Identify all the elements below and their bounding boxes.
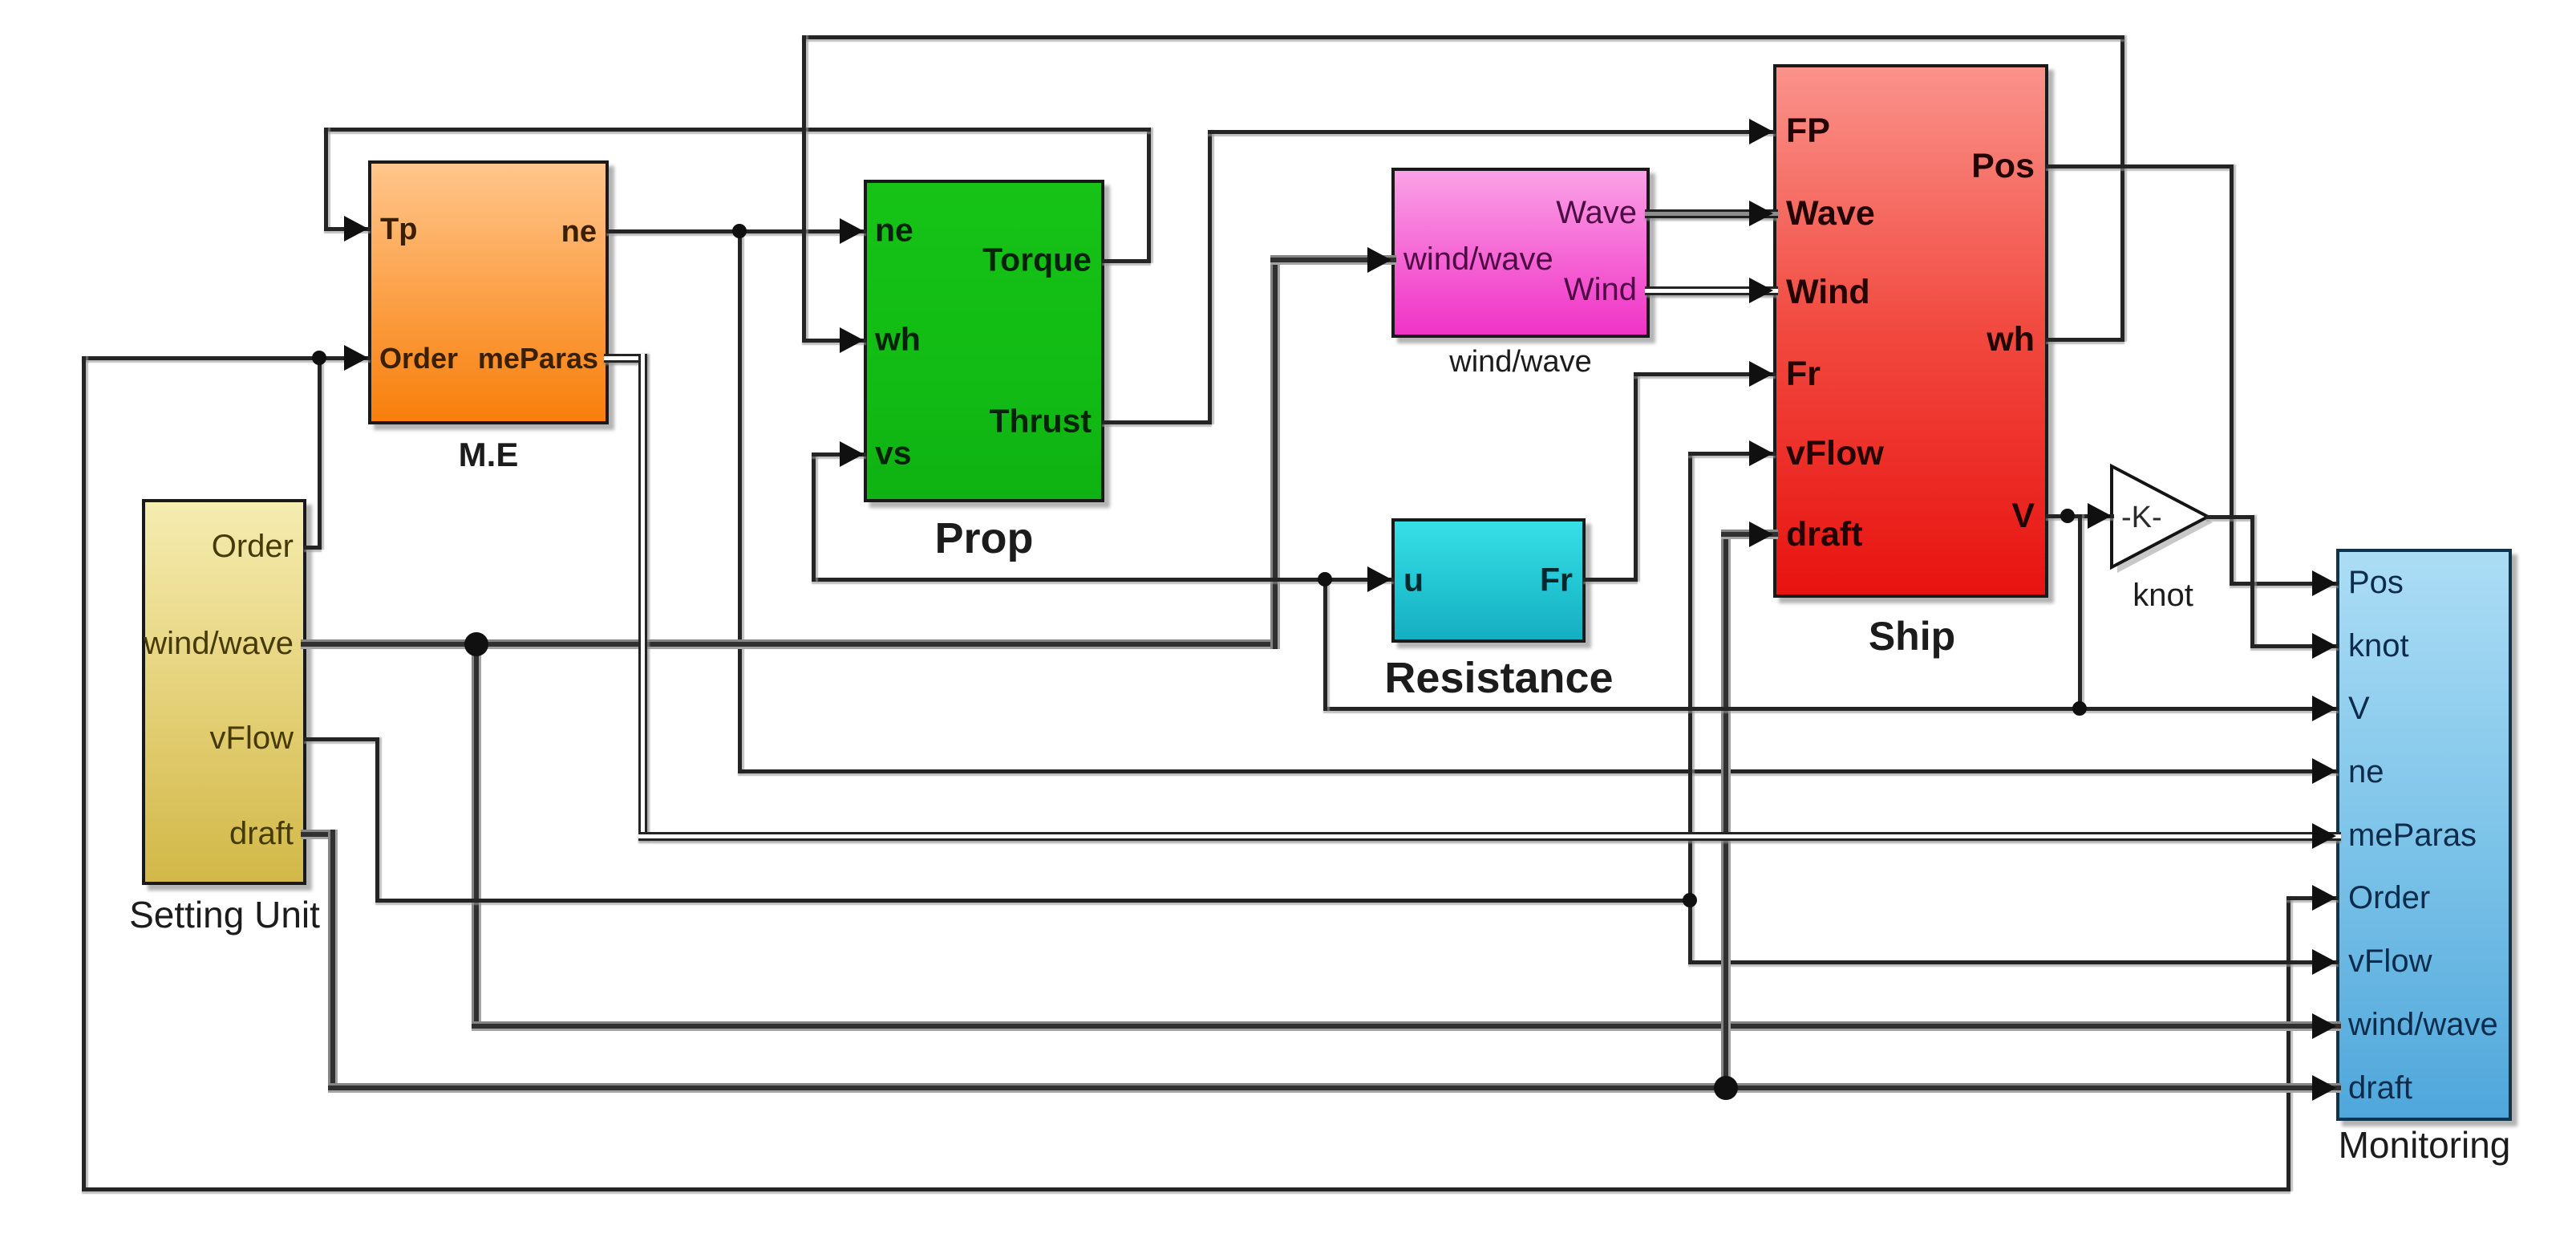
wire V to Monitoring V [1323,707,2339,711]
wire V drop [2078,514,2082,711]
block Setting Unit (source subsystem) [142,499,306,885]
junction Order branch [312,351,326,365]
wire draft to Ship draft [1721,530,1731,1093]
block Resistance [1391,518,1586,643]
junction V branch [2060,509,2075,523]
wire Order to Monitoring Order [82,356,322,360]
gain knot (-K-) [2106,461,2218,577]
block Ship [1773,64,2048,598]
wire Setting Unit draft to Monitoring draft [301,830,338,839]
label knot [2132,579,2193,611]
wire Wind to Ship Wind [1645,286,1778,295]
wire wind/wave to Monitoring wind/wave [472,639,481,1031]
wire M.E meParas to Monitoring meParas [604,354,647,363]
wire Setting Unit wind/wave to wind/wave block [301,639,1280,649]
wire Ship wh to Prop wh [2046,338,2124,342]
wire V to Prop vs [812,578,1327,582]
wire V to Resistance u [1323,578,1394,582]
wire Setting Unit Order riser [304,546,322,550]
wire gain knot to Monitoring knot [2206,515,2254,519]
junction V line branch [2072,701,2087,716]
label wind/wave [1449,347,1591,377]
junction wind/wave branch [464,632,488,656]
junction ne branch [732,224,747,238]
label Prop [934,517,1033,560]
block Monitoring (scope subsystem) [2336,549,2512,1121]
block wind/wave (disturbance subsystem) [1391,168,1650,338]
junction u branch [1318,572,1332,586]
wire Order to M.E Order [318,356,371,360]
wire vFlow to Monitoring vFlow [1688,899,1692,964]
label Resistance [1384,656,1613,700]
junction draft branch [1714,1076,1738,1100]
wire Torque to M.E Tp [1102,259,1151,263]
label Monitoring [2339,1126,2511,1163]
junction vFlow branch [1683,893,1697,907]
wire Prop Thrust to Ship FP [1102,420,1212,424]
wire M.E ne to Prop ne [606,229,866,233]
label M.E [459,438,519,472]
wire Resistance Fr to Ship Fr [1583,578,1638,582]
wire Wave to Ship Wave [1645,209,1778,218]
svg-text:-K-: -K- [2121,501,2162,534]
wire Setting Unit vFlow trunk [304,737,379,741]
block M.E (engine subsystem) [368,160,609,424]
label Ship [1869,616,1955,656]
wire Ship V to gain knot [2046,514,2114,518]
block Prop (propeller subsystem) [864,180,1104,502]
wire ne to Monitoring ne [738,229,742,773]
wire vFlow to Ship vFlow [1688,452,1692,903]
label Setting Unit [129,896,320,933]
wire V riser to u [1323,578,1327,711]
wire Ship Pos to Monitoring Pos [2046,164,2234,168]
